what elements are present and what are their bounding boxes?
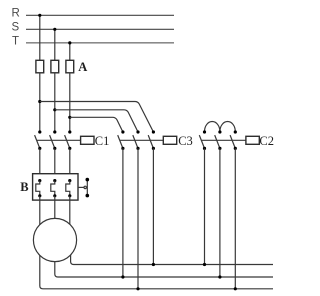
svg-text:C3: C3 — [178, 134, 193, 148]
svg-text:C2: C2 — [259, 134, 274, 148]
svg-text:C1: C1 — [95, 134, 110, 148]
svg-text:B: B — [20, 180, 28, 194]
svg-text:T: T — [12, 36, 19, 48]
svg-text:R: R — [12, 8, 20, 20]
svg-text:S: S — [12, 22, 20, 34]
svg-text:A: A — [78, 60, 87, 74]
